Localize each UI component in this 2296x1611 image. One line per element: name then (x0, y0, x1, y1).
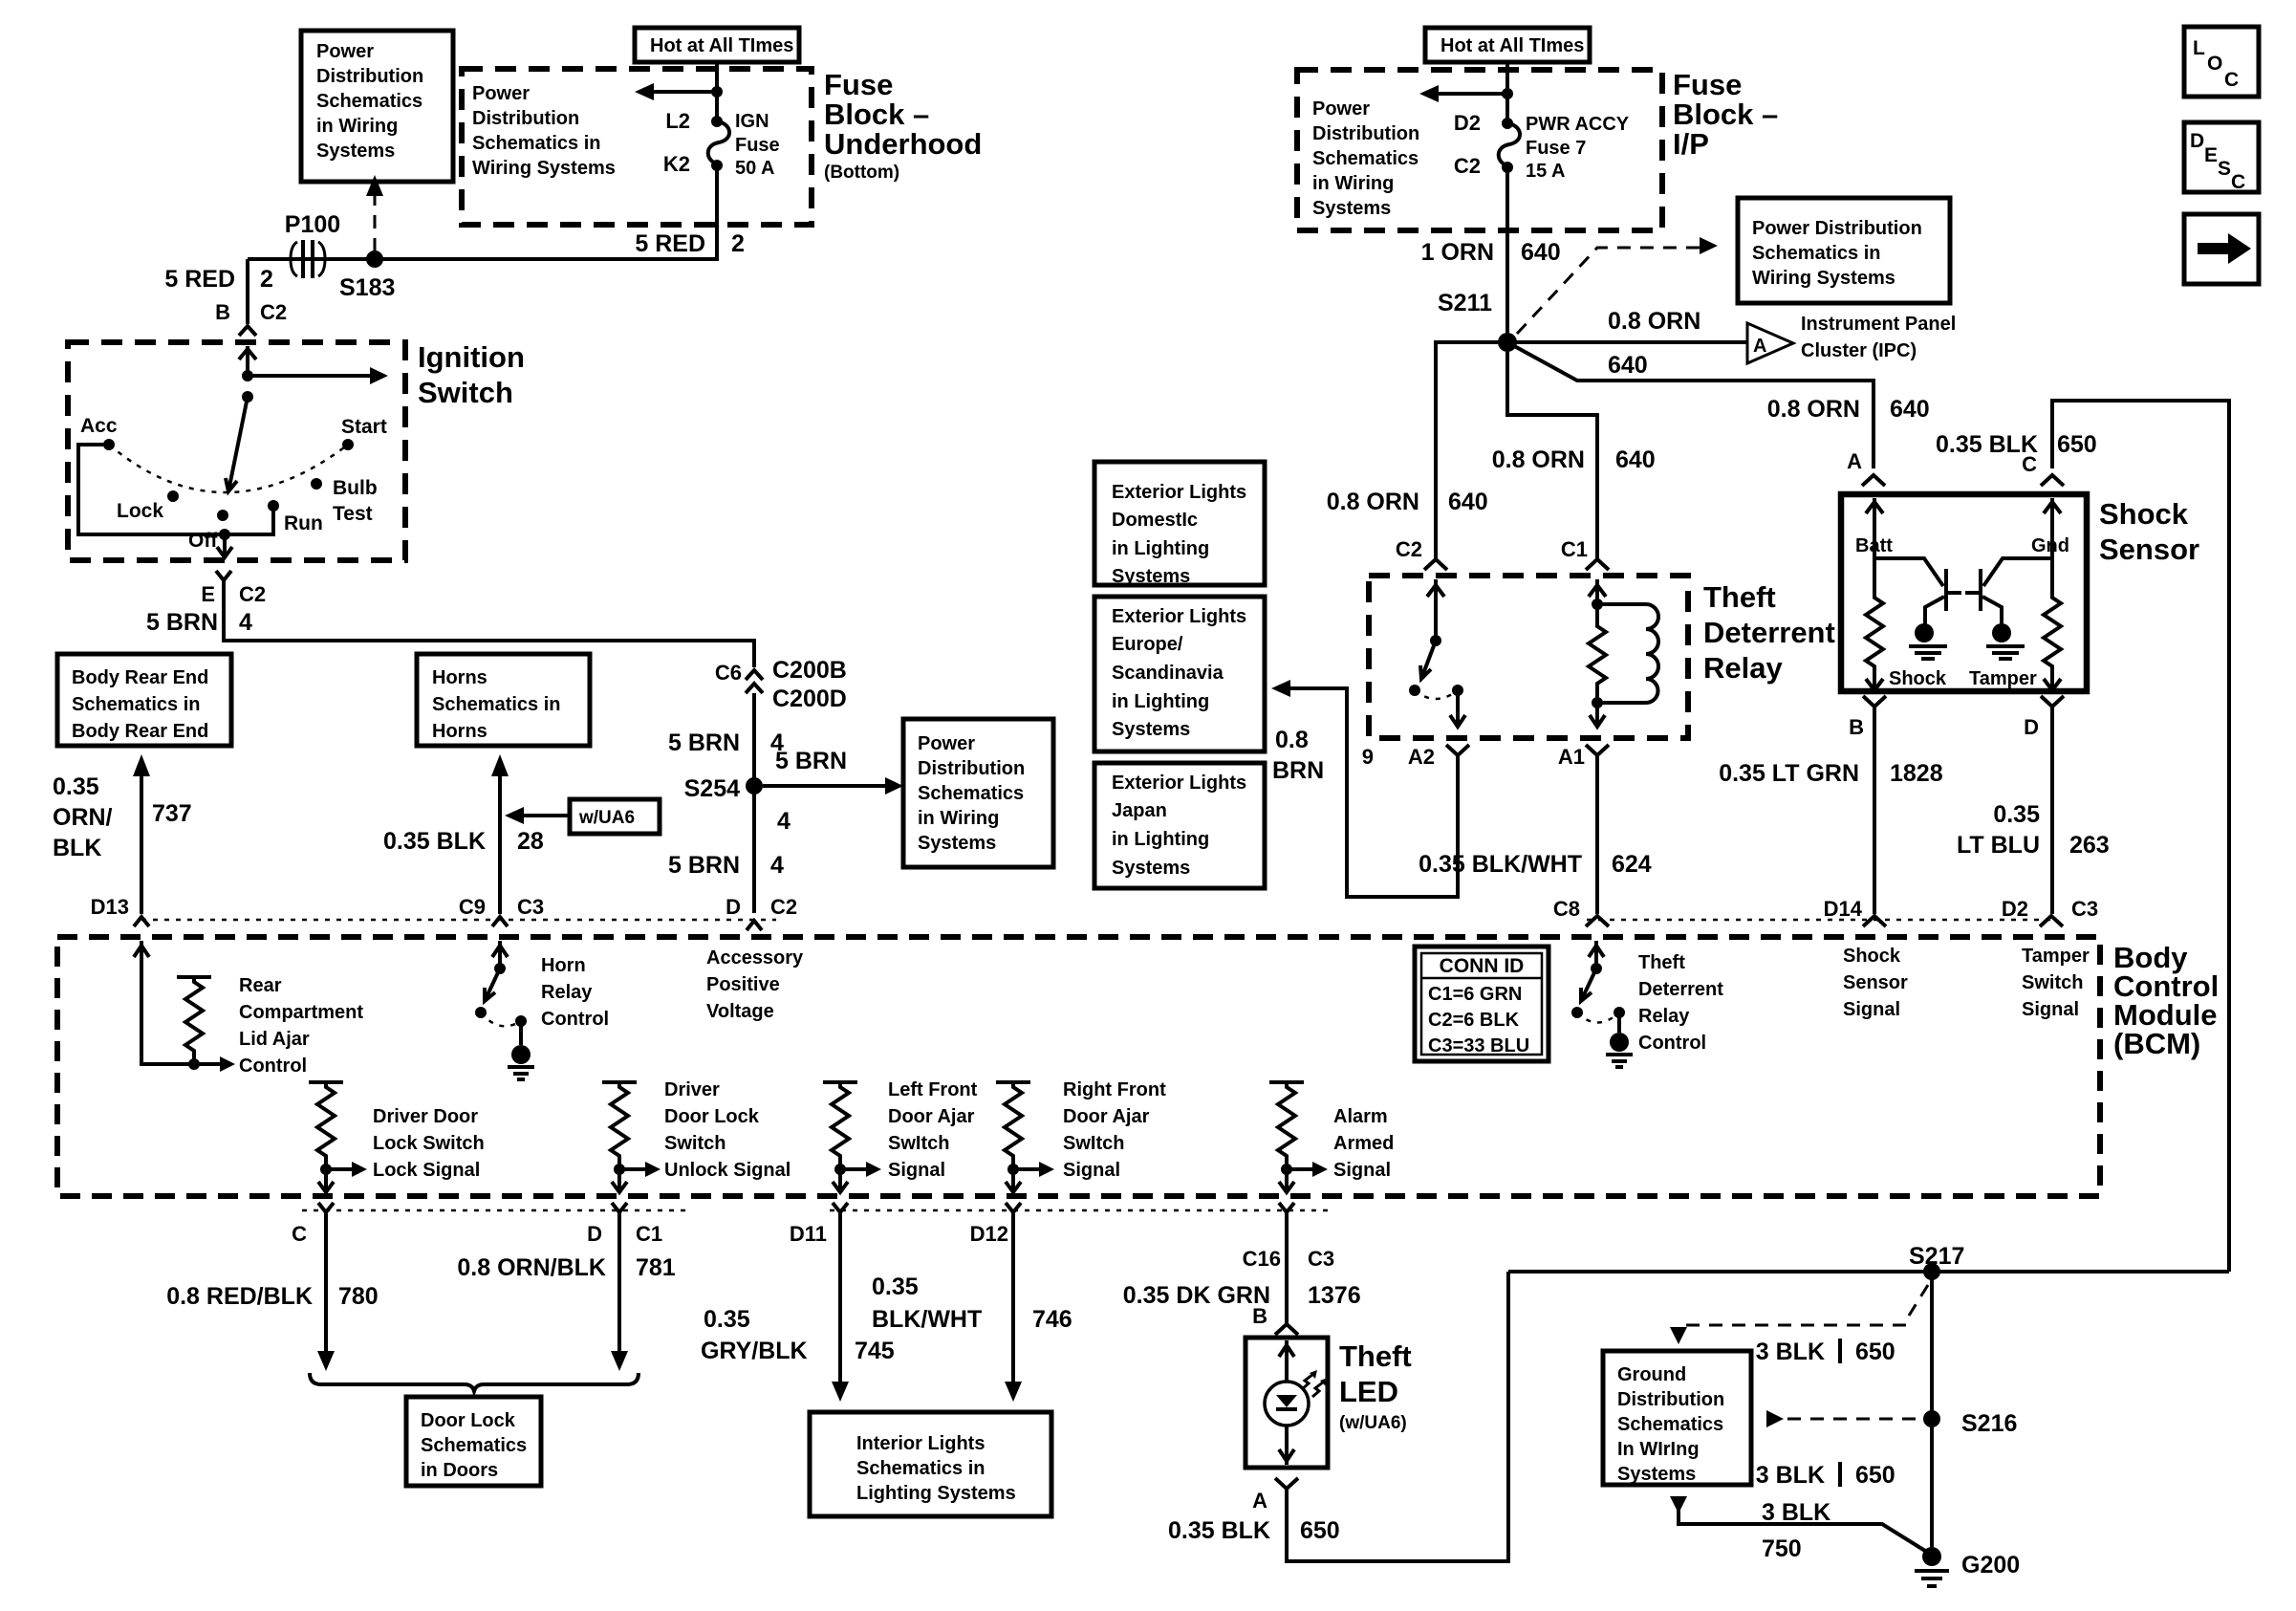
svg-text:C2: C2 (770, 895, 797, 919)
wire: output arrow down (223, 534, 227, 555)
svg-text:L2: L2 (665, 109, 690, 133)
ground (tamper) (1992, 623, 2011, 642)
wire: contact down to A2 (1456, 690, 1460, 725)
brace to door lock schematics (310, 1373, 639, 1391)
dashed arrow: ground box to S216 (1766, 1410, 1784, 1427)
svg-text:Scandinavia: Scandinavia (1112, 663, 1224, 684)
svg-text:Lock Signal: Lock Signal (373, 1160, 480, 1181)
wire: C9 up to Horns box (498, 773, 502, 914)
svg-text:4: 4 (239, 609, 252, 636)
svg-text:Start: Start (341, 416, 387, 438)
svg-text:5 BRN: 5 BRN (775, 748, 847, 774)
svg-text:w/UA6: w/UA6 (578, 808, 635, 828)
svg-text:Distribution: Distribution (918, 758, 1025, 779)
theft LED box (1245, 1338, 1328, 1468)
theft deterrent relay dashed box (1369, 576, 1688, 738)
svg-text:737: 737 (152, 800, 192, 827)
svg-text:15 A: 15 A (1526, 161, 1566, 182)
svg-text:650: 650 (1855, 1462, 1895, 1489)
wire: ground rail to right side (1508, 1270, 2229, 1274)
wire: A1 down to BCM C8 (1595, 755, 1599, 914)
svg-text:C2: C2 (239, 582, 266, 606)
wire: internal arrow right (248, 374, 373, 378)
wire: shock resistor to pin B with arrow (1873, 673, 1876, 689)
svg-text:in Wiring: in Wiring (918, 808, 999, 829)
svg-text:CONN ID: CONN ID (1440, 955, 1525, 977)
ground (shock) (1915, 623, 1934, 642)
svg-text:B: B (1252, 1304, 1267, 1328)
dashed wire: to power distribution reference (right) (1517, 248, 1702, 334)
svg-text:640: 640 (1615, 446, 1656, 473)
reference box: Power Distribution Schematics in Wiring Systems (right) (1738, 198, 1950, 303)
svg-text:0.35: 0.35 (53, 773, 99, 800)
label box: Hot at All Times (left) (635, 28, 799, 62)
wire: C200D down through S254 to BCM (752, 693, 756, 913)
svg-text:Horns: Horns (432, 667, 487, 688)
wire: C down with arrow (324, 1212, 328, 1354)
svg-text:Power: Power (316, 41, 374, 62)
contact Start (342, 439, 354, 450)
title: Body Control Module (BCM) (2113, 941, 2219, 1060)
svg-text:In WIrIng: In WIrIng (1617, 1439, 1700, 1460)
svg-text:Control: Control (1638, 1033, 1706, 1054)
svg-text:Exterior Lights: Exterior Lights (1112, 482, 1246, 503)
svg-text:Body Rear End: Body Rear End (72, 667, 208, 688)
dashed arc theft relay control (1577, 1012, 1619, 1023)
svg-text:IGN: IGN (735, 111, 769, 132)
svg-text:Shock: Shock (1843, 946, 1901, 967)
CONN ID table box (1415, 947, 1549, 1061)
svg-text:Relay: Relay (1703, 651, 1783, 685)
svg-text:Accessory: Accessory (706, 947, 804, 969)
svg-text:Armed: Armed (1333, 1133, 1394, 1154)
svg-text:Systems: Systems (1112, 566, 1190, 587)
svg-text:Sensor: Sensor (2099, 533, 2199, 566)
svg-text:Fuse: Fuse (824, 68, 893, 101)
connector C8 (1586, 916, 1609, 926)
svg-text:DomestIc: DomestIc (1112, 510, 1198, 531)
svg-text:Systems: Systems (316, 141, 395, 162)
wire: batt lead inside shock sensor (1873, 498, 1876, 593)
wire: C16 down to theft LED B (1285, 1212, 1289, 1323)
wire: A down right and up to S217 rail (1287, 1272, 1508, 1561)
connector C (driver lock) (318, 1203, 334, 1212)
svg-text:640: 640 (1521, 239, 1561, 266)
wire: B down to BCM D14 (1873, 707, 1876, 914)
svg-text:(w/UA6): (w/UA6) (1339, 1413, 1407, 1433)
svg-text:C1: C1 (1561, 537, 1588, 561)
wire: tamper resistor to pin D with arrow (2050, 673, 2054, 689)
resistor (shock side) (1866, 593, 1883, 675)
horn relay contact right (515, 1015, 527, 1027)
resistor (relay) (1589, 604, 1606, 703)
svg-text:5 BRN: 5 BRN (146, 609, 218, 636)
svg-text:Shock: Shock (1889, 668, 1947, 689)
svg-text:Schematics in: Schematics in (472, 133, 601, 154)
svg-text:0.35 BLK: 0.35 BLK (383, 828, 486, 855)
svg-text:C16: C16 (1243, 1247, 1281, 1271)
svg-text:Deterrent: Deterrent (1703, 616, 1835, 649)
relay contact (to A2) (1452, 685, 1463, 696)
svg-text:Schematics in: Schematics in (856, 1458, 986, 1479)
svg-text:Horn: Horn (541, 955, 586, 976)
svg-text:C2: C2 (1454, 154, 1481, 178)
svg-text:Compartment: Compartment (239, 1002, 363, 1023)
svg-text:Power: Power (918, 733, 975, 754)
wire: ground box down to G200 (1670, 1496, 1687, 1513)
thin dashed connector row (bottom mid) (830, 1209, 1333, 1212)
contact Run (268, 500, 279, 512)
svg-text:Distribution: Distribution (472, 108, 579, 129)
splice S254 (746, 777, 763, 795)
svg-text:BLK: BLK (53, 835, 101, 861)
svg-text:A: A (1753, 336, 1766, 357)
title: Fuse Block - I/P (1673, 68, 1778, 161)
junction on hot feed (711, 86, 723, 98)
svg-text:C9: C9 (459, 895, 486, 919)
svg-text:0.8 ORN: 0.8 ORN (1327, 489, 1419, 515)
svg-text:5 BRN: 5 BRN (668, 852, 740, 879)
svg-text:745: 745 (855, 1338, 895, 1364)
svg-text:Schematics in: Schematics in (72, 694, 201, 715)
svg-text:Schematics: Schematics (1312, 148, 1419, 169)
svg-text:Power Distribution: Power Distribution (1752, 218, 1922, 239)
svg-text:0.35 DK GRN: 0.35 DK GRN (1123, 1282, 1270, 1309)
wire: S211 to shock sensor A (0.8 ORN 640) (1507, 342, 1874, 468)
svg-text:Sensor: Sensor (1843, 972, 1908, 993)
svg-text:0.35: 0.35 (704, 1306, 750, 1333)
svg-text:3 BLK: 3 BLK (1756, 1462, 1825, 1489)
svg-text:in Lighting: in Lighting (1112, 691, 1209, 712)
wire: from K2 down and left to S183 (248, 165, 717, 259)
connector B (theft LED) (1275, 1324, 1298, 1335)
svg-text:0.8: 0.8 (1275, 727, 1309, 753)
connector D2 (shock sensor pin D) (2041, 696, 2064, 707)
svg-text:Control: Control (541, 1009, 609, 1030)
wire: D13 entry into BCM (141, 941, 194, 1064)
svg-text:L: L (2193, 37, 2205, 59)
resistor: left front door ajar switch (823, 1080, 857, 1084)
svg-text:A: A (1847, 449, 1862, 473)
fuse block underhood dashed box (462, 69, 812, 225)
wire: S217 down to G200 (1930, 1272, 1934, 1551)
svg-text:1 ORN: 1 ORN (1421, 239, 1494, 266)
svg-text:0.8 RED/BLK: 0.8 RED/BLK (166, 1283, 313, 1310)
svg-text:C3: C3 (517, 895, 544, 919)
splice S217 (1923, 1263, 1940, 1280)
svg-text:D: D (2024, 715, 2039, 739)
svg-text:S183: S183 (339, 274, 395, 301)
wire: w/UA6 arrow to horn wire (518, 814, 570, 817)
resistor: driver door lock switch unlock (602, 1080, 637, 1084)
svg-text:Test: Test (333, 503, 373, 525)
svg-text:I/P: I/P (1673, 127, 1709, 161)
svg-text:Door Ajar: Door Ajar (888, 1106, 975, 1127)
wire: C2 down to S211 (1505, 167, 1509, 342)
node: coil bottom (1592, 697, 1603, 708)
svg-text:1828: 1828 (1890, 760, 1943, 787)
wire: D down with arrow (617, 1212, 621, 1354)
svg-text:C3: C3 (2071, 897, 2098, 921)
svg-text:C: C (2224, 69, 2239, 91)
svg-text:D2: D2 (2002, 897, 2028, 921)
svg-text:Exterior Lights: Exterior Lights (1112, 773, 1246, 794)
svg-text:Horns: Horns (432, 721, 487, 742)
svg-text:S217: S217 (1909, 1243, 1964, 1270)
svg-text:Lock: Lock (117, 500, 163, 522)
svg-text:C1: C1 (636, 1222, 662, 1246)
svg-text:S254: S254 (684, 775, 740, 802)
connector A (shock sensor) (1862, 475, 1885, 486)
svg-text:A: A (1252, 1489, 1267, 1513)
svg-text:Bulb: Bulb (333, 477, 378, 499)
wire: branch arrow left inside fuse block I/P (1431, 92, 1507, 96)
reference box: Exterior Lights Japan in Lighting Systems (1094, 763, 1265, 888)
svg-text:Shock: Shock (2099, 497, 2189, 531)
svg-text:Lid Ajar: Lid Ajar (239, 1029, 310, 1050)
node: feed junction (242, 370, 253, 381)
svg-text:Lighting Systems: Lighting Systems (856, 1483, 1016, 1504)
wire: contact to ground (1617, 1012, 1621, 1033)
theft relay contact right (1614, 1007, 1625, 1018)
connector D2 of C3 (BCM) (2040, 916, 2063, 926)
node: lid ajar resistor bottom (188, 1058, 200, 1070)
wire: S254 arrow right to power distribution (763, 784, 888, 788)
svg-text:780: 780 (338, 1283, 379, 1310)
svg-text:Door Lock: Door Lock (421, 1410, 516, 1431)
connector C16 of C3 (1279, 1203, 1294, 1212)
svg-text:Schematics: Schematics (918, 783, 1024, 804)
connector A2 (1446, 745, 1469, 755)
connector C6 / C200B C200D (746, 670, 763, 680)
contact Off (217, 510, 228, 521)
svg-text:D12: D12 (970, 1222, 1008, 1246)
svg-text:ORN/: ORN/ (53, 804, 113, 831)
svg-text:Acc: Acc (80, 415, 118, 437)
wire: coil bottom to A1 (1595, 703, 1599, 725)
reference box: Exterior Lights Domestic in Lighting Systems (1094, 462, 1265, 587)
svg-text:O: O (2207, 53, 2222, 75)
svg-text:Gnd: Gnd (2031, 535, 2069, 556)
svg-text:Switch: Switch (664, 1133, 726, 1154)
svg-text:Right Front: Right Front (1063, 1079, 1166, 1100)
text: Power Distribution Schematics in Wiring Systems (inside fuse block UH) (472, 83, 616, 179)
svg-text:Theft: Theft (1339, 1339, 1412, 1373)
svg-text:Signal: Signal (888, 1160, 945, 1181)
connector A (theft LED) (1275, 1478, 1298, 1489)
svg-text:Theft: Theft (1638, 952, 1685, 973)
terminal L2 (711, 116, 723, 127)
svg-text:C200D: C200D (772, 686, 847, 712)
svg-text:Hot at All TImes: Hot at All TImes (1440, 35, 1584, 56)
svg-text:C: C (2231, 171, 2245, 193)
fuse PWR ACCY Fuse 7 15 A (1499, 123, 1520, 166)
svg-text:5 RED: 5 RED (164, 266, 235, 293)
svg-text:Schematics: Schematics (1617, 1414, 1723, 1435)
svg-text:in Wiring: in Wiring (1312, 173, 1394, 194)
svg-text:(BCM): (BCM) (2113, 1027, 2200, 1060)
dashed: S217 to ground distribution box (1909, 1285, 1928, 1316)
ground (theft relay control) (1610, 1033, 1629, 1052)
label box w/UA6 (570, 799, 660, 834)
svg-text:C: C (292, 1222, 307, 1246)
wire: S211 branch down to relay C2 (1436, 342, 1507, 559)
svg-text:28: 28 (517, 828, 544, 855)
ground G200 (1922, 1547, 1941, 1566)
label box: Hot at All Times (right) (1425, 28, 1590, 62)
svg-text:in Lighting: in Lighting (1112, 829, 1209, 850)
svg-text:Distribution: Distribution (1617, 1389, 1724, 1410)
svg-text:624: 624 (1612, 851, 1652, 878)
svg-text:0.35: 0.35 (1993, 801, 2040, 828)
svg-text:0.8 ORN: 0.8 ORN (1767, 396, 1860, 423)
svg-text:750: 750 (1762, 1535, 1802, 1562)
svg-text:Signal: Signal (1063, 1160, 1120, 1181)
svg-text:S211: S211 (1438, 290, 1492, 316)
svg-text:Body Rear End: Body Rear End (72, 721, 208, 742)
svg-text:640: 640 (1890, 396, 1930, 423)
svg-text:4: 4 (770, 852, 784, 879)
reference box: Interior Lights Schematics in Lighting Systems (810, 1412, 1051, 1516)
theft relay contact left (1571, 1007, 1583, 1018)
resistor: driver door lock switch lock (309, 1080, 343, 1084)
svg-text:Distribution: Distribution (316, 66, 423, 87)
svg-text:Tamper: Tamper (2022, 946, 2090, 967)
connector D of C2 (BCM accessory feed) (747, 921, 762, 930)
svg-text:0.35: 0.35 (872, 1274, 919, 1300)
svg-text:D11: D11 (790, 1222, 827, 1246)
svg-text:S: S (2218, 158, 2231, 180)
wire: S211 branch down to relay C1 (1507, 352, 1597, 559)
connector E of C2 (216, 571, 231, 580)
svg-text:650: 650 (1300, 1517, 1340, 1544)
dashed arc horn relay (481, 1012, 521, 1026)
svg-text:LED: LED (1339, 1375, 1398, 1408)
svg-text:Voltage: Voltage (706, 1001, 774, 1022)
svg-text:D: D (587, 1222, 602, 1246)
svg-text:GRY/BLK: GRY/BLK (701, 1338, 808, 1364)
svg-text:Block –: Block – (1673, 98, 1778, 131)
reference box: Power Distribution Schematics in Wiring Systems (top left) (301, 31, 453, 182)
svg-text:746: 746 (1032, 1306, 1072, 1333)
svg-text:1376: 1376 (1308, 1282, 1361, 1309)
svg-text:Exterior Lights: Exterior Lights (1112, 606, 1246, 627)
svg-text:(Bottom): (Bottom) (824, 163, 899, 183)
svg-text:Systems: Systems (1112, 858, 1190, 879)
svg-text:Control: Control (239, 1056, 307, 1077)
svg-text:C1=6 GRN: C1=6 GRN (1428, 984, 1522, 1005)
svg-text:Tamper: Tamper (1969, 668, 2037, 689)
reference box: Exterior Lights Europe/Scandinavia in Lighting Systems (1094, 597, 1265, 751)
svg-text:263: 263 (2069, 832, 2110, 859)
wire: A2 down, left and up to Europe/Scandinavia arrow (1289, 688, 1458, 897)
relay switch arm (1421, 641, 1436, 679)
svg-text:C2=6 BLK: C2=6 BLK (1428, 1010, 1520, 1031)
svg-text:640: 640 (1608, 352, 1648, 379)
legend box DESC (2184, 122, 2259, 193)
svg-text:in Doors: in Doors (421, 1460, 498, 1481)
svg-text:C8: C8 (1553, 897, 1580, 921)
svg-text:640: 640 (1448, 489, 1488, 515)
svg-text:5 BRN: 5 BRN (668, 729, 740, 756)
svg-text:2: 2 (260, 266, 273, 293)
reference box: Door Lock Schematics in Doors (406, 1397, 541, 1486)
junction on hot feed (1502, 88, 1513, 99)
svg-text:650: 650 (2057, 431, 2097, 458)
svg-text:Power: Power (472, 83, 530, 104)
wire inside LED box (1285, 1340, 1289, 1465)
reference box: Power Distribution Schematics in Wiring Systems (center) (903, 719, 1053, 867)
svg-text:4: 4 (777, 808, 791, 835)
svg-text:BRN: BRN (1272, 757, 1324, 784)
shock sensor box (1841, 494, 2087, 691)
svg-text:Door Lock: Door Lock (664, 1106, 760, 1127)
dashed arc between relay contacts (1415, 690, 1458, 699)
svg-text:C2: C2 (1396, 537, 1422, 561)
svg-text:Relay: Relay (541, 982, 593, 1003)
svg-text:SwItch: SwItch (888, 1133, 949, 1154)
LED symbol (1265, 1382, 1309, 1426)
svg-text:Systems: Systems (1112, 719, 1190, 740)
svg-text:0.35 BLK: 0.35 BLK (1168, 1517, 1270, 1544)
body control module dashed box (57, 937, 2100, 1196)
reference box: Horns Schematics in Horns (417, 654, 590, 746)
relay coil feed (1595, 579, 1599, 604)
svg-text:Distribution: Distribution (1312, 123, 1419, 144)
connector C (shock sensor) (2041, 475, 2064, 486)
svg-text:E: E (2204, 144, 2218, 166)
text: Power Distribution Schematics in Wiring Systems (inside fuse block I/P) (1312, 98, 1419, 219)
svg-text:0.35 BLK/WHT: 0.35 BLK/WHT (1419, 851, 1582, 878)
svg-text:P100: P100 (285, 211, 340, 238)
terminal D2 (1502, 118, 1513, 129)
contact Bulb Test (311, 478, 322, 490)
ignition switch dashed box (68, 342, 405, 560)
wire: branch arrow left inside fuse block UH (646, 90, 717, 94)
svg-text:Systems: Systems (1312, 198, 1391, 219)
svg-text:Ground: Ground (1617, 1364, 1686, 1385)
svg-text:Deterrent: Deterrent (1638, 979, 1723, 1000)
svg-text:3 BLK: 3 BLK (1762, 1499, 1830, 1526)
fuse block I/P dashed box (1297, 70, 1662, 230)
svg-text:E: E (201, 582, 215, 606)
resistor (tamper side) (2044, 593, 2061, 675)
svg-text:Switch: Switch (418, 376, 513, 409)
wire: Acc to Run bottom path (78, 445, 273, 534)
svg-text:Fuse 7: Fuse 7 (1526, 138, 1586, 159)
resistor: right front door ajar switch (996, 1080, 1030, 1084)
node: wiper pivot (242, 391, 253, 403)
coil (relay) (1597, 604, 1658, 703)
svg-text:C3=33 BLU: C3=33 BLU (1428, 1035, 1529, 1056)
connector B (shock sensor) (1863, 696, 1886, 707)
svg-text:D: D (2190, 130, 2204, 152)
svg-text:K2: K2 (663, 152, 690, 176)
svg-text:Signal: Signal (2022, 999, 2079, 1020)
svg-text:Power: Power (1312, 98, 1370, 120)
svg-text:Fuse: Fuse (735, 135, 780, 156)
svg-text:SwItch: SwItch (1063, 1133, 1124, 1154)
svg-text:BLK/WHT: BLK/WHT (872, 1306, 982, 1333)
splice S183 (366, 250, 383, 268)
connector D13 (134, 917, 149, 926)
LED light arrows (1302, 1370, 1328, 1397)
thin dashed connector row (top right) (1587, 919, 2057, 922)
wire: hot feed into fuse block UH (715, 62, 719, 120)
svg-text:Ignition: Ignition (418, 340, 525, 374)
wire: D13 up to Body Rear End box (140, 773, 143, 914)
arrow: lid ajar control (194, 1062, 222, 1066)
